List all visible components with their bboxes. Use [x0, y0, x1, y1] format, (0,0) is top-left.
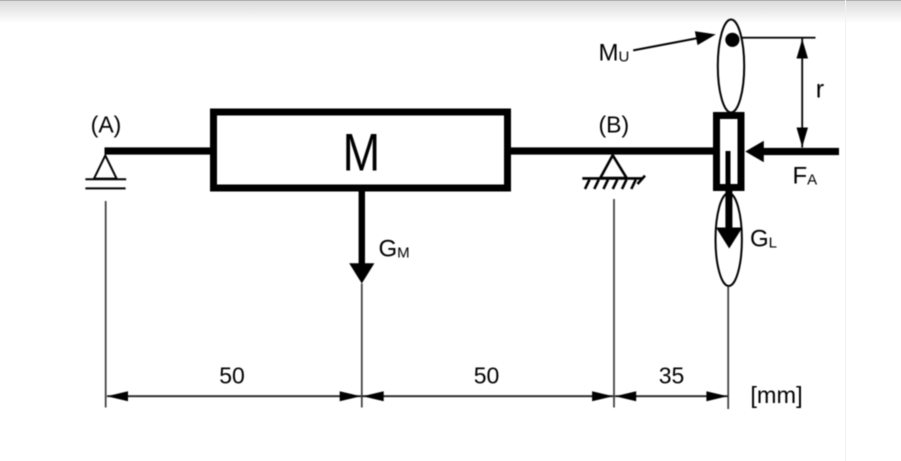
svg-text:FA: FA [793, 162, 818, 189]
svg-text:(A): (A) [91, 112, 122, 138]
bearing B (fixed support) [582, 155, 645, 189]
svg-text:r: r [816, 76, 824, 104]
M_U pointer arrow [633, 38, 699, 51]
dimension 50 (A to M centre) [107, 395, 361, 397]
extension line G_M [361, 284, 363, 408]
fan blade bottom [716, 193, 742, 286]
fan hub [717, 116, 742, 188]
force F_A arrow [762, 148, 839, 155]
shaft end inside hub [726, 151, 731, 185]
svg-text:GM: GM [379, 236, 410, 263]
svg-text:[mm]: [mm] [750, 382, 802, 408]
svg-text:50: 50 [219, 363, 245, 389]
extension line B [613, 199, 615, 408]
unbalance mass dot [725, 33, 739, 47]
svg-text:(B): (B) [598, 112, 629, 138]
dimension 50 (M centre to B) [363, 395, 614, 397]
bearing A (roller support) [85, 155, 126, 188]
svg-text:50: 50 [474, 363, 500, 389]
shaft [105, 147, 714, 154]
radius reference line [741, 37, 816, 39]
svg-text:35: 35 [659, 363, 685, 389]
extension line A [105, 201, 107, 408]
svg-text:MU: MU [599, 40, 630, 67]
force G_L arrow [725, 188, 732, 229]
motor block M [214, 112, 508, 188]
extension line fan [727, 287, 729, 410]
dimension 35 (B to fan) [615, 395, 728, 397]
dimension r [801, 38, 803, 148]
svg-text:M: M [343, 123, 381, 182]
force G_M arrow [359, 190, 365, 265]
fan blade top [718, 20, 744, 113]
svg-text:GL: GL [750, 225, 777, 252]
